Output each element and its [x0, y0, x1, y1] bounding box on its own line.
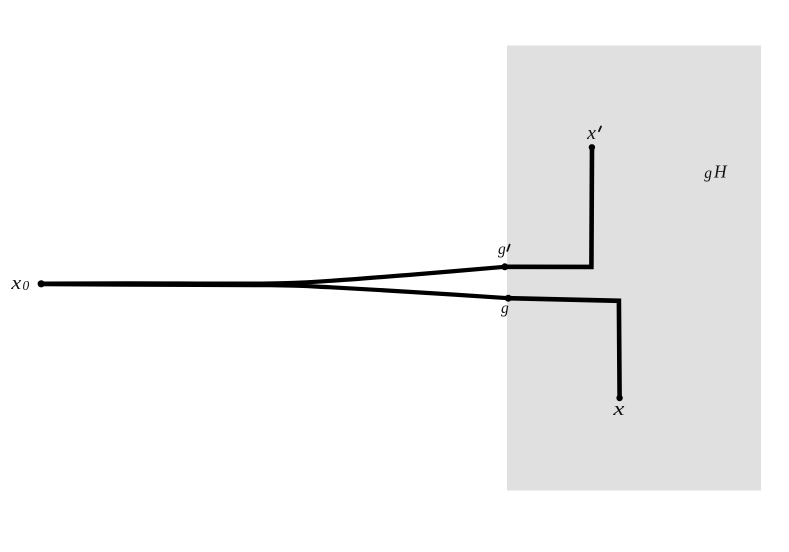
svg-text:H: H [713, 162, 728, 182]
wire: path from g to x (horizontal then vertical) [508, 298, 619, 398]
wire: geodesic from x0 to g' (upper curve) [41, 267, 505, 284]
svg-text:x: x [612, 399, 625, 420]
svg-text:x: x [586, 123, 596, 144]
svg-text:g: g [704, 165, 712, 182]
node x0 [38, 280, 45, 287]
wire: path from g' to x' (horizontal then vertical) [505, 147, 592, 267]
coset region gH (gray rectangle) [507, 46, 761, 491]
svg-text:x: x [10, 273, 22, 294]
node x' [589, 144, 595, 150]
node g' [501, 263, 508, 270]
wire: geodesic from x0 to g (lower curve) [41, 284, 508, 298]
svg-text:g: g [501, 300, 509, 317]
node g [505, 295, 512, 302]
node x [616, 395, 622, 401]
svg-text:g: g [498, 241, 506, 258]
svg-text:0: 0 [23, 278, 30, 293]
